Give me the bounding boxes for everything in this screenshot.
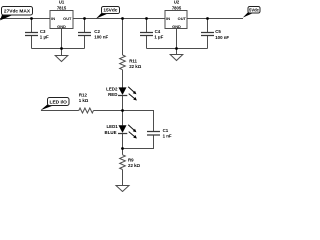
svg-text:U1: U1	[59, 0, 65, 5]
svg-text:1 kΩ: 1 kΩ	[79, 98, 89, 103]
svg-text:OUT: OUT	[63, 16, 72, 21]
svg-text:15Vdc: 15Vdc	[103, 8, 117, 14]
svg-text:U2: U2	[174, 0, 180, 5]
svg-text:27Vdc MAX: 27Vdc MAX	[4, 9, 31, 15]
svg-text:C3: C3	[40, 29, 46, 34]
svg-text:LED I/O: LED I/O	[50, 99, 68, 105]
svg-text:100 nF: 100 nF	[215, 35, 229, 40]
svg-text:7805: 7805	[172, 5, 182, 10]
svg-text:22 kΩ: 22 kΩ	[128, 163, 141, 168]
svg-text:C2: C2	[94, 29, 100, 34]
svg-text:7815: 7815	[57, 5, 67, 10]
svg-text:OUT: OUT	[178, 16, 187, 21]
svg-text:IN: IN	[51, 16, 55, 21]
svg-text:1 µF: 1 µF	[154, 35, 163, 40]
svg-text:5Vdc: 5Vdc	[249, 7, 260, 12]
svg-text:IN: IN	[166, 16, 170, 21]
svg-text:R11: R11	[129, 59, 137, 64]
svg-text:C1: C1	[163, 128, 169, 133]
svg-text:GND: GND	[172, 24, 181, 29]
svg-text:R9: R9	[128, 157, 134, 162]
svg-text:R12: R12	[79, 93, 88, 98]
svg-text:RED: RED	[108, 92, 117, 97]
svg-text:100 nF: 100 nF	[94, 35, 108, 40]
svg-text:LED1: LED1	[106, 124, 118, 129]
svg-text:BLUE: BLUE	[105, 130, 117, 135]
svg-text:22 kΩ: 22 kΩ	[129, 64, 142, 69]
svg-text:GND: GND	[57, 24, 66, 29]
svg-text:1 nF: 1 nF	[163, 134, 172, 139]
svg-text:1 µF: 1 µF	[40, 35, 49, 40]
svg-text:C4: C4	[155, 29, 161, 34]
svg-text:C5: C5	[215, 29, 221, 34]
